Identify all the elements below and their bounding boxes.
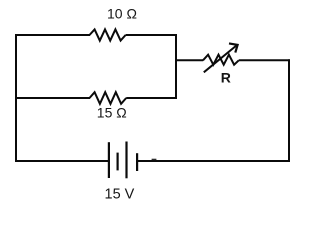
wire: middle horizontal, right of 15 ohm resistor bbox=[126, 97, 177, 99]
wire: branch from junction to variable resistor R bbox=[176, 59, 203, 61]
wire: top horizontal, left of 10 ohm resistor bbox=[15, 34, 90, 36]
wire: top horizontal, right of 10 ohm resistor bbox=[126, 34, 177, 36]
battery 15 V bbox=[109, 142, 137, 179]
battery plate: long (cell 2 positive) bbox=[125, 142, 127, 179]
battery plate: short (cell 2 negative) bbox=[136, 153, 138, 171]
resistor 15 ohm zigzag bbox=[90, 92, 127, 104]
resistor 10 ohm zigzag bbox=[90, 29, 126, 40]
wire: middle horizontal, left of 15 ohm resistor bbox=[15, 97, 90, 99]
battery plate: long (cell 1 positive) bbox=[108, 142, 110, 178]
wire: from variable resistor to right vertical bbox=[239, 59, 290, 61]
svg-text:15 Ω: 15 Ω bbox=[97, 105, 127, 121]
variable resistor R zigzag bbox=[203, 55, 239, 65]
svg-text:10 Ω: 10 Ω bbox=[107, 5, 137, 21]
variable resistor arrowhead bbox=[229, 43, 238, 52]
wire: inner right vertical joining the two parallel branches bbox=[175, 34, 177, 99]
battery plate: short (cell 1 negative) bbox=[116, 153, 118, 171]
wire: bottom horizontal, left of battery bbox=[15, 160, 108, 162]
variable resistor arrow shaft bbox=[204, 45, 237, 72]
svg-text:15 V: 15 V bbox=[105, 187, 135, 203]
wire: small joint tick on bottom wire right of battery bbox=[152, 158, 157, 160]
svg-text:R: R bbox=[221, 69, 231, 85]
wire: bottom horizontal, right of battery bbox=[138, 160, 290, 162]
wire: left vertical bus bbox=[15, 34, 17, 162]
wire: right vertical bbox=[288, 59, 290, 162]
